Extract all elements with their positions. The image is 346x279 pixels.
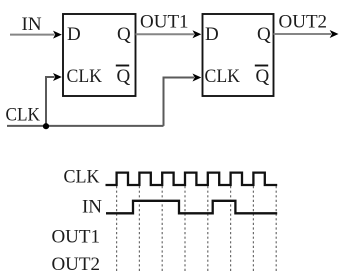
svg-text:Q: Q <box>256 66 270 87</box>
flip-flop U2 pin label Q-bar <box>255 66 270 88</box>
svg-text:IN: IN <box>82 197 102 218</box>
svg-text:IN: IN <box>22 14 42 35</box>
svg-text:OUT1: OUT1 <box>140 11 189 32</box>
svg-text:OUT2: OUT2 <box>51 254 100 275</box>
svg-text:CLK: CLK <box>64 167 100 188</box>
svg-text:Q: Q <box>117 24 131 45</box>
wire U1.Q to U2.D <box>136 33 195 35</box>
flip-flop U1 pin label Q-bar <box>116 66 131 88</box>
timing gridlines (dashed) <box>117 186 277 271</box>
waveform IN <box>106 201 277 214</box>
wire IN to U1.D <box>10 34 55 36</box>
flip-flop U2 box <box>203 14 274 96</box>
svg-text:OUT1: OUT1 <box>51 227 100 248</box>
svg-text:OUT2: OUT2 <box>279 11 328 32</box>
wire U2.Q to OUT2 <box>274 33 332 35</box>
svg-text:D: D <box>205 24 219 45</box>
svg-text:CLK: CLK <box>6 105 41 126</box>
arrowhead into U2.D <box>193 30 202 38</box>
arrowhead into U1.D <box>53 31 62 39</box>
flip-flop U1 box <box>63 14 136 96</box>
svg-text:Q: Q <box>117 66 131 87</box>
wire CLK riser to U1.CLK <box>46 77 55 126</box>
waveform CLK <box>106 173 278 185</box>
wire CLK riser to U2.CLK <box>164 78 195 126</box>
junction dot on CLK net <box>43 123 49 129</box>
svg-text:D: D <box>67 24 81 45</box>
svg-text:Q: Q <box>257 24 271 45</box>
arrowhead into U1.CLK <box>53 73 62 81</box>
arrowhead into U2.CLK <box>193 74 202 82</box>
svg-text:CLK: CLK <box>67 66 103 87</box>
wire CLK horizontal run <box>7 125 164 127</box>
arrowhead at OUT2 end <box>330 30 339 38</box>
svg-text:CLK: CLK <box>205 66 241 87</box>
